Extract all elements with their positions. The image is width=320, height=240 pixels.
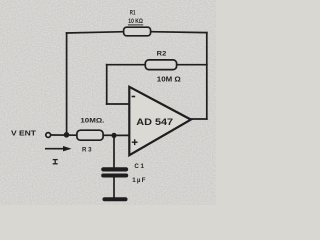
capacitor C1 plate top: [101, 167, 128, 171]
input terminal circle: [46, 133, 51, 138]
svg-text:V ENT: V ENT: [11, 130, 37, 137]
op-amp plus sign: [132, 139, 138, 145]
op-amp U1 AD 547: [129, 87, 191, 155]
current arrow I: [45, 148, 64, 150]
wire C1 to ground: [113, 177, 115, 197]
wire input from terminal: [51, 134, 77, 136]
svg-text:10M Ω: 10M Ω: [157, 74, 181, 83]
resistor R3: [77, 130, 103, 140]
node B junction dot (right of R3): [111, 133, 116, 138]
svg-text:10 KΩ: 10 KΩ: [128, 18, 143, 25]
paper background: [0, 0, 216, 205]
wire R3 to node A: [103, 134, 114, 136]
wire node A down to C1: [113, 135, 115, 167]
wire output: [191, 118, 207, 120]
wire R2 row: [107, 64, 207, 66]
svg-text:10MΩ.: 10MΩ.: [80, 118, 104, 125]
resistor R2: [145, 60, 176, 70]
wire top feedback R1 row: [67, 32, 124, 33]
svg-text:1µF: 1µF: [132, 177, 146, 184]
wire R2 loop vertical: [106, 65, 108, 104]
capacitor C1 plate bottom: [101, 174, 128, 178]
svg-text:C 1: C 1: [134, 164, 144, 170]
svg-text:R1: R1: [130, 10, 136, 17]
label I: [53, 160, 58, 164]
wire inverting input: [107, 103, 129, 105]
op-amp minus sign: [132, 96, 136, 98]
svg-text:R2: R2: [157, 51, 167, 58]
wire right vertical: [206, 33, 208, 119]
svg-text:AD 547: AD 547: [136, 117, 173, 127]
wire non-inverting input: [114, 134, 129, 136]
resistor R1: [124, 27, 151, 36]
svg-text:R 3: R 3: [82, 146, 92, 153]
wire left feedback vertical: [66, 33, 68, 135]
ground: [103, 197, 128, 201]
node A junction dot (left): [64, 132, 70, 138]
